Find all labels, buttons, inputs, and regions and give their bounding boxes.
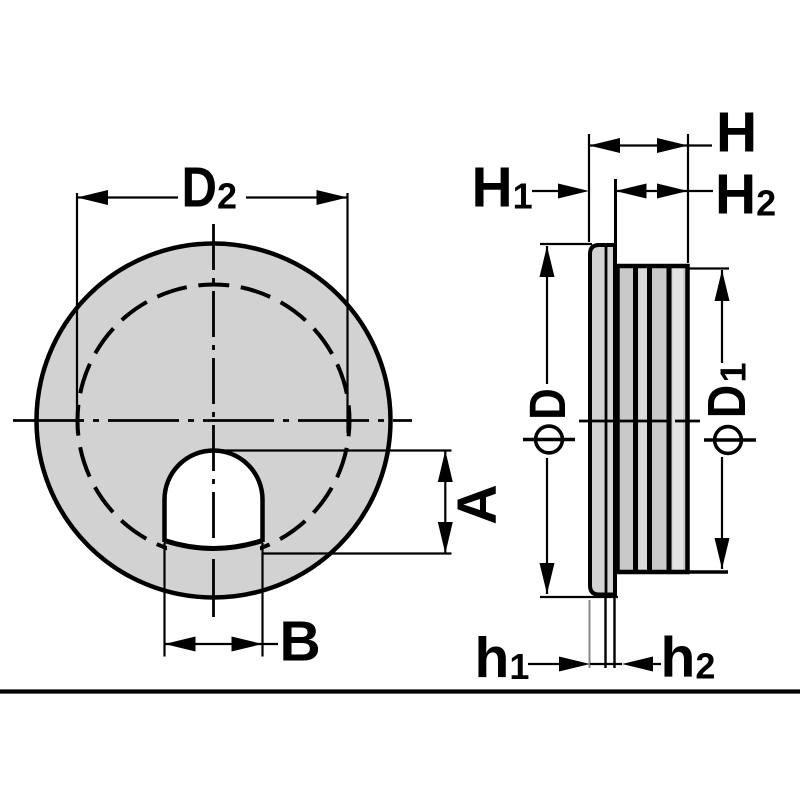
under-flange thin line 2: [604, 598, 606, 668]
phiD1 dimension line: [721, 270, 723, 363]
D2 right arrow: [317, 190, 348, 205]
H left arrow: [589, 138, 620, 153]
h1 arrow: [559, 657, 590, 672]
body light stripe 1: [639, 269, 648, 570]
side view body: [618, 266, 688, 572]
svg-text:h1: h1: [475, 626, 530, 690]
H1 leader line: [532, 190, 560, 192]
keyhole outline: [165, 450, 263, 542]
svg-text:H: H: [716, 101, 757, 165]
B dimension extension line right: [261, 543, 263, 657]
H dimension left extension line: [588, 134, 590, 242]
B dimension extension line left: [163, 543, 165, 657]
H dimension line: [589, 144, 712, 146]
body rib line 2: [647, 268, 652, 570]
B dimension line: [165, 643, 279, 645]
h2 arrow: [622, 657, 653, 672]
side view centerline: [579, 420, 700, 423]
H2 dimension line: [616, 190, 714, 192]
phiD bottom extension line: [540, 596, 618, 598]
svg-text:1: 1: [713, 362, 754, 382]
H1 arrow: [558, 184, 589, 199]
D2 dimension extension line right: [346, 193, 348, 433]
phiD label phi circle: [536, 426, 563, 453]
A dimension bottom extension line: [262, 552, 452, 554]
phiD label phi bar: [523, 438, 575, 442]
H right arrow: [657, 138, 688, 153]
bottom frame line: [0, 689, 800, 693]
phiD1 label phi circle: [715, 427, 742, 454]
body rib line 3: [667, 268, 672, 570]
body light stripe 2: [673, 269, 684, 570]
side view flange: [590, 245, 615, 595]
svg-text:D2: D2: [182, 156, 238, 220]
phiD down arrow: [540, 563, 555, 594]
phiD1 label phi bar: [704, 438, 756, 442]
H2 extension line (flange right): [614, 179, 617, 264]
D2 dimension extension line left: [76, 193, 78, 433]
h2 leader line: [653, 663, 661, 665]
svg-text:D: D: [519, 388, 576, 420]
svg-text:h2: h2: [661, 626, 716, 690]
phiD dimension line: [546, 246, 548, 384]
svg-text:D: D: [697, 385, 757, 419]
A dimension top extension line: [218, 449, 452, 451]
keyhole bottom edge arc: [165, 541, 263, 549]
D2 dimension line: [77, 196, 178, 198]
A down arrow: [438, 522, 453, 554]
svg-text:H1: H1: [472, 156, 533, 220]
h mid line: [590, 663, 622, 665]
H2 left arrow: [616, 184, 647, 199]
phiD1 down arrow: [715, 538, 730, 569]
phiD top extension line: [540, 243, 592, 245]
phiD1 up arrow: [715, 270, 730, 301]
phiD1 top extension line: [688, 267, 729, 269]
svg-text:A: A: [445, 484, 508, 524]
under-flange thin line 3: [613, 598, 615, 668]
flange inner edge line: [605, 247, 608, 593]
svg-text:B: B: [280, 610, 321, 674]
patch over dashed circle behind keyhole: [167, 536, 260, 562]
front view outer circle: [37, 244, 391, 598]
vertical centerline: [212, 224, 215, 617]
keyhole white opening: [165, 450, 263, 548]
B left arrow: [165, 637, 196, 652]
horizontal centerline: [13, 419, 412, 422]
phiD up arrow: [540, 246, 555, 277]
A up arrow: [438, 451, 453, 483]
H dimension right extension line: [687, 134, 689, 263]
svg-text:H2: H2: [715, 163, 776, 227]
A dimension line: [444, 451, 446, 554]
body rib line 1: [633, 268, 638, 570]
D2 left arrow: [77, 190, 108, 205]
B right arrow: [232, 637, 263, 652]
body bottom extension to phiD1: [688, 570, 729, 574]
recess dashed circle: [78, 285, 350, 557]
H2 right arrow: [657, 184, 688, 199]
under-flange thin line 1: [589, 600, 591, 668]
h1 leader line: [528, 663, 560, 665]
